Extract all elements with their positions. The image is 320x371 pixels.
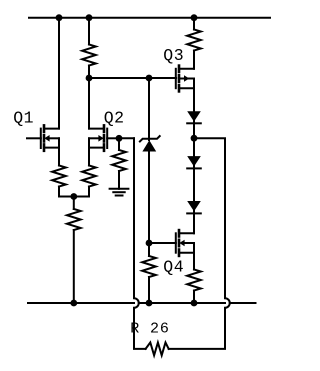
wire top rail to Q2 load resistor bbox=[88, 18, 90, 45]
resistor Q3 drain load bbox=[187, 30, 201, 51]
wire top supply rail bbox=[29, 17, 270, 19]
wire Q4 gate node down bbox=[148, 243, 150, 256]
wire Q2 resistor to tail node bbox=[74, 187, 89, 197]
node dot on bottom rail bbox=[146, 300, 153, 307]
transistor Q4 (NMOS) bbox=[176, 230, 194, 256]
svg-text:Q2: Q2 bbox=[104, 108, 125, 127]
wire Q1 drain to top rail bbox=[58, 18, 60, 129]
wire Q4 source down bbox=[193, 253, 195, 270]
resistor Q4 source bbox=[187, 270, 201, 291]
resistor Q2 gate to ground bbox=[112, 150, 126, 171]
wire Q3 source to diode chain bbox=[193, 88, 195, 138]
transistor Q2 (NMOS, mirrored) bbox=[89, 125, 119, 150]
transistor Q3 (PMOS) bbox=[176, 66, 194, 92]
wire tail resistor to bottom rail bbox=[73, 230, 75, 303]
wire load resistor to Q3 drain bbox=[193, 51, 195, 69]
resistor tail current source bbox=[67, 209, 81, 230]
svg-text:Q4: Q4 bbox=[163, 258, 184, 277]
wire resistor to ground bbox=[118, 171, 120, 189]
wire top rail to Q3 load resistor bbox=[193, 18, 195, 30]
svg-text:Q1: Q1 bbox=[13, 108, 34, 127]
zener diode Z1 bbox=[140, 136, 160, 151]
resistor R26 bbox=[146, 343, 169, 356]
node dot Q4 gate bbox=[146, 240, 153, 247]
node dot tail on bottom rail bbox=[70, 300, 77, 307]
node dot zener top on gate bus bbox=[146, 75, 153, 82]
wire Q1 source down bbox=[58, 148, 60, 166]
wire bottom supply rail bbox=[28, 302, 256, 304]
wire Q2 drain up bbox=[88, 78, 90, 129]
node dot tail junction bbox=[70, 193, 77, 200]
node dot Q2 drain / gate bus bbox=[86, 75, 93, 82]
node dot diode chain / feedback bbox=[191, 135, 198, 142]
wire tail node down bbox=[73, 197, 75, 210]
resistor Q2 source degeneration bbox=[82, 166, 96, 187]
svg-text:Q3: Q3 bbox=[163, 46, 184, 65]
wire Q4 resistor to bottom rail bbox=[193, 291, 195, 304]
wire Q2 source down bbox=[88, 148, 90, 166]
ground bbox=[110, 189, 129, 196]
wire diode node down to Q4 drain bbox=[193, 138, 195, 233]
wire feedback right leg with hop over bottom rail bbox=[169, 138, 230, 349]
wire Q4 gate lead bbox=[149, 242, 176, 244]
transistor Q1 (NMOS) bbox=[27, 125, 59, 150]
svg-text:R 26: R 26 bbox=[130, 320, 170, 337]
wire Q2 gate to feedback corner bbox=[119, 137, 134, 139]
resistor Q4 gate to rail bbox=[142, 256, 156, 277]
node dot Q2 gate bbox=[116, 135, 123, 142]
diode D2 bbox=[187, 156, 201, 168]
wire gate bus to Q3 bbox=[89, 77, 176, 79]
diode D3 bbox=[187, 201, 201, 213]
wire zener to Q4 gate node bbox=[148, 152, 150, 244]
wire load resistor to node bbox=[88, 66, 90, 79]
wire feedback left leg with hop over bottom rail bbox=[134, 138, 146, 349]
diode D1 bbox=[187, 111, 201, 123]
resistor Q2 drain load bbox=[82, 45, 96, 66]
wire Q2 gate down bbox=[118, 138, 120, 150]
node dot top rail / Q2 load bbox=[86, 14, 93, 21]
wire gate bus down to zener bbox=[148, 78, 150, 140]
node dot Q4 source on bottom rail bbox=[191, 300, 198, 307]
wire Q1 resistor to tail node bbox=[59, 187, 74, 197]
wire resistor to bottom rail bbox=[148, 277, 150, 303]
resistor Q1 source degeneration bbox=[52, 166, 66, 187]
node dot top rail / Q1 drain bbox=[56, 14, 63, 21]
node dot top rail / Q3 load bbox=[191, 14, 198, 21]
